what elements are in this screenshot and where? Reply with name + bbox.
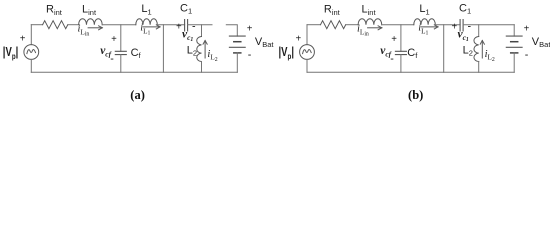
wire C_f branch upper lead: [120, 25, 122, 52]
capacitor C_f: [395, 51, 406, 54]
capacitor C1: [460, 20, 463, 31]
svg-text:+: +: [247, 23, 253, 34]
wire shunt branch L1/C1 node to bottom rail: [443, 25, 445, 73]
battery V_Bat: [229, 35, 245, 37]
AC source V_p (b): [300, 45, 315, 60]
wire C1 to L2 node: [463, 24, 514, 26]
wire battery bottom lead: [236, 53, 238, 72]
inductor L2: [474, 37, 479, 62]
wire battery top segment (disconnected stub): [226, 25, 237, 36]
current arrow i_Lin: [368, 27, 382, 29]
current arrow i_L2: [204, 41, 206, 59]
AC source V_p (a): [24, 45, 39, 60]
current arrow i_Lin: [88, 27, 102, 29]
wire C_f branch upper lead: [400, 25, 402, 52]
wire L2 lower lead: [478, 62, 480, 73]
wire source a bottom lead: [30, 59, 32, 72]
wire L2 lower lead: [201, 62, 203, 73]
svg-text:|Vp|: |Vp|: [279, 44, 295, 61]
wire L1 to C1 (node with shunt branch): [435, 24, 460, 26]
inductor L1: [136, 19, 158, 25]
wire L1 to C1 (node with shunt branch): [157, 24, 184, 26]
svg-text:-: -: [525, 50, 528, 61]
wire battery bottom lead: [513, 53, 515, 72]
inductor L1: [414, 19, 436, 25]
svg-text:+: +: [111, 34, 117, 45]
wire source b top lead: [306, 25, 308, 45]
current arrow i_L1: [421, 26, 438, 28]
wire source b bottom lead: [306, 59, 308, 72]
wire source a top lead: [30, 25, 32, 45]
current arrow i_L2: [481, 41, 483, 59]
svg-text:+: +: [524, 23, 530, 34]
svg-text:-: -: [248, 50, 251, 61]
svg-text:-: -: [110, 54, 113, 65]
wire C_f branch lower lead: [120, 55, 122, 73]
wire L_int to L1 (node with C_f branch): [382, 24, 414, 26]
svg-text:-: -: [390, 54, 393, 65]
current arrow i_L1: [143, 26, 160, 28]
wire top rail corner to battery: [513, 25, 515, 36]
wire C1 to L2 node: [188, 24, 212, 26]
svg-text:|Vp|: |Vp|: [3, 44, 18, 61]
svg-text:-: -: [192, 21, 195, 32]
svg-text:+: +: [295, 34, 301, 45]
resistor R_int: [321, 21, 346, 29]
wire shunt branch L1/C1 node to bottom rail: [162, 25, 164, 73]
svg-text:(b): (b): [408, 88, 423, 102]
svg-text:+: +: [20, 34, 26, 45]
resistor R_int: [43, 21, 68, 29]
svg-text:-: -: [468, 21, 471, 32]
battery V_Bat: [506, 35, 522, 37]
wire L2 upper lead: [478, 25, 480, 37]
inductor L2: [197, 37, 202, 62]
inductor L_int: [358, 19, 382, 25]
svg-text:(a): (a): [130, 88, 145, 102]
wire C_f branch lower lead: [400, 55, 402, 73]
svg-text:+: +: [391, 34, 397, 45]
wire bottom rail: [307, 71, 514, 73]
wire top rail: source to R_int: [307, 24, 321, 26]
wire bottom rail: [31, 71, 237, 73]
wire L2 upper lead: [201, 25, 203, 37]
wire R_int to L_int: [68, 24, 79, 26]
capacitor C_f: [115, 51, 126, 54]
wire top rail: source to R_int: [31, 24, 42, 26]
wire L_int to L1 (node with C_f branch): [102, 24, 136, 26]
inductor L_int: [79, 19, 103, 25]
wire R_int to L_int: [346, 24, 358, 26]
capacitor C1: [185, 20, 188, 31]
